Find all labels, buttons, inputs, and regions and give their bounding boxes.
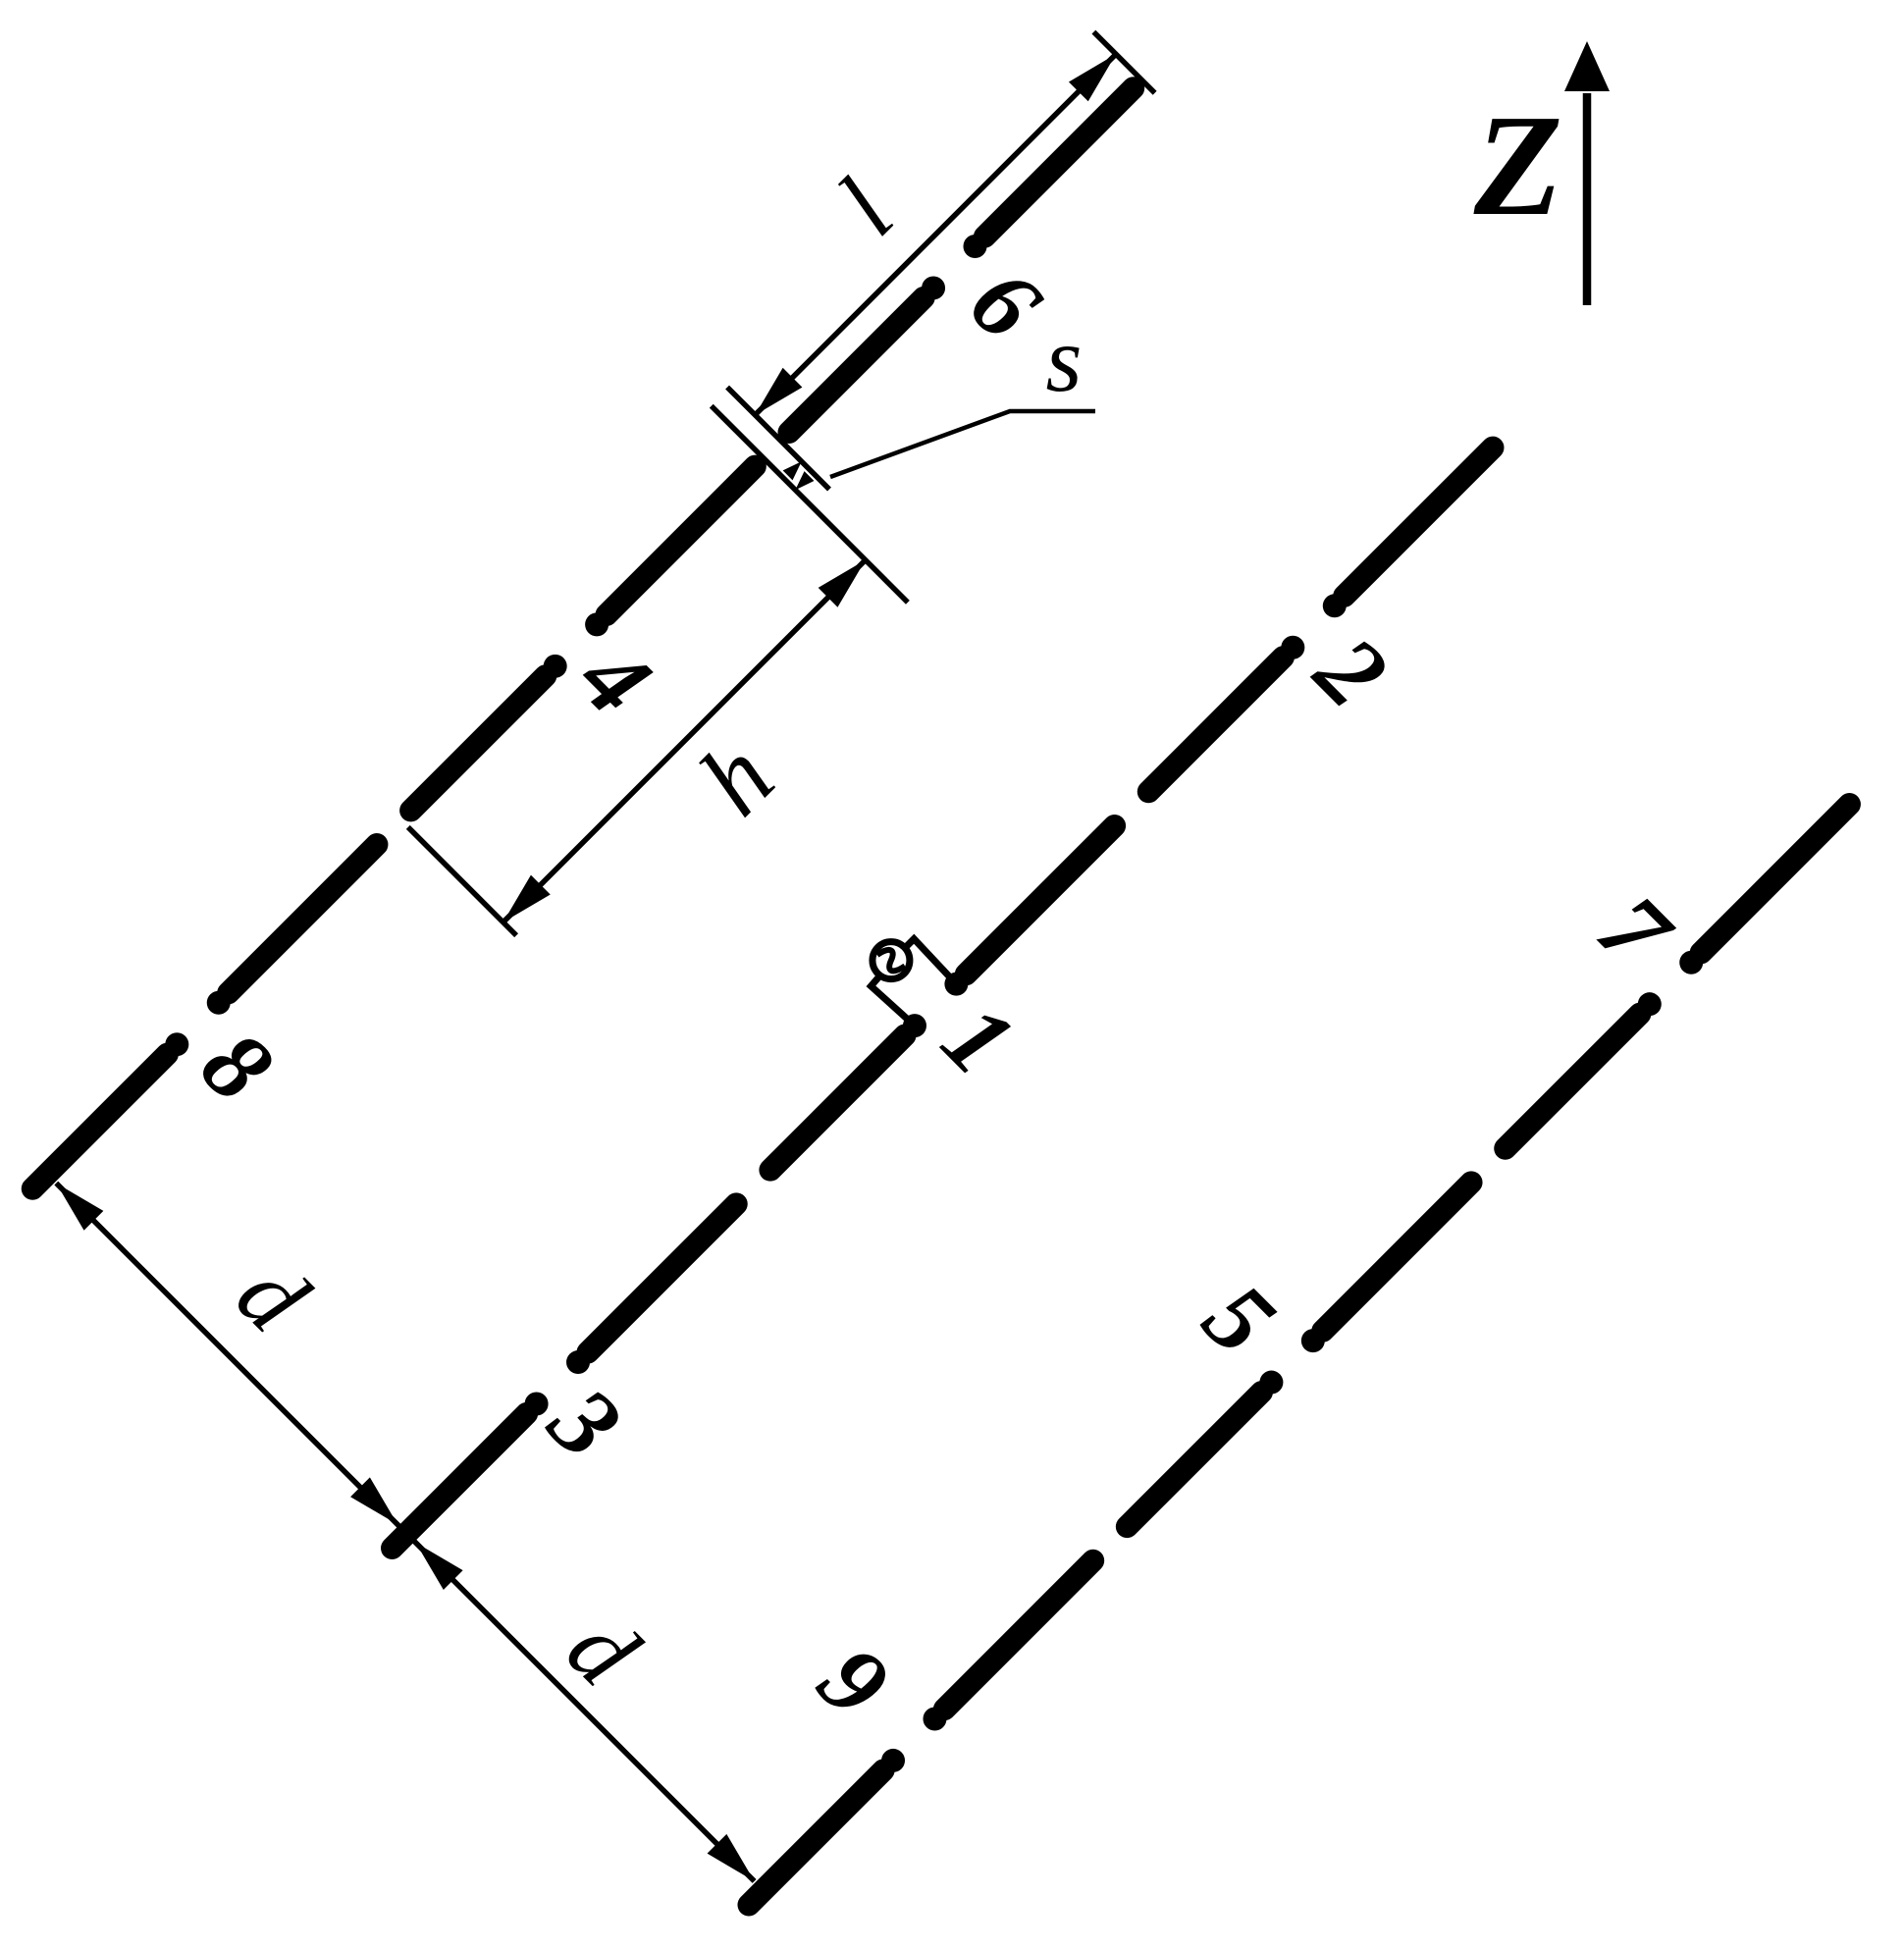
svg-text:Z: Z (1473, 85, 1562, 246)
svg-text:s: s (1046, 307, 1083, 411)
